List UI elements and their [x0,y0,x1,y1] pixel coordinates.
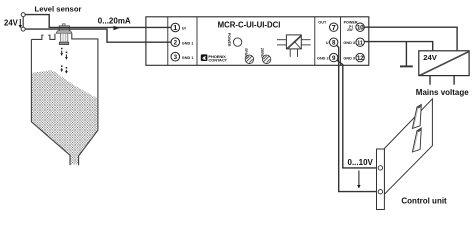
svg-text:SPAN: SPAN [244,48,248,58]
potentiometer SPAN [244,48,254,63]
svg-text:U: U [326,41,329,45]
terminal 9 GND 2 [317,53,338,61]
terminal 3 GND 1 [171,52,193,61]
wire GND 3 from terminal 11 [363,42,433,51]
svg-text:UI: UI [182,26,186,31]
module MCR-C-UI-UI-DCI [146,17,369,66]
tank (storage silo) [31,34,98,165]
svg-text:10: 10 [357,25,364,32]
power supply 24V [419,51,469,85]
24V source terminals [21,13,25,32]
svg-text:GND 3: GND 3 [343,41,355,45]
potentiometer ZERO [260,48,271,64]
svg-text:0...20mA: 0...20mA [98,16,131,25]
label 0...10V with arrow [348,158,374,189]
Phoenix Contact logo [201,54,228,63]
wire 24V+ supply to sensor and 0...20mA to terminal 1 [25,15,171,28]
terminal 2 GND 1 [171,38,193,47]
svg-text:Control unit: Control unit [401,196,447,205]
svg-text:GND 2: GND 2 [317,56,329,60]
ground symbol [400,42,413,67]
svg-text:OUT: OUT [318,20,327,24]
terminal 11 GND 3 [343,38,364,46]
svg-text:2: 2 [174,39,178,46]
arrow 0...20mA direction [114,26,120,30]
control unit card [384,99,432,195]
svg-text:POWER: POWER [227,33,231,47]
isolation amplifier symbol [277,35,311,57]
svg-text:8: 8 [332,39,336,46]
terminal 1 UI [171,23,186,32]
svg-text:24V: 24V [423,53,438,62]
chip 2 on card [412,128,421,152]
svg-text:1: 1 [173,23,177,32]
svg-text:9: 9 [332,55,336,62]
svg-text:Level sensor: Level sensor [35,5,82,14]
wire GND 2 from terminal 9 to control unit [337,60,378,168]
terminal 8 U [326,38,338,46]
control unit front panel [377,149,385,210]
svg-text:Mains voltage: Mains voltage [416,88,469,97]
wire U output from terminal 8 to control unit [337,45,378,191]
terminal 12 GND 3 [343,53,364,62]
label 24V with arrow [4,19,22,29]
chip 1 on card [412,104,421,128]
level sensor [56,24,72,45]
terminal 10 (+)24V [347,23,364,32]
wire 24V power from terminal 10 [363,27,457,50]
svg-text:CONTACT: CONTACT [208,57,227,62]
svg-text:7: 7 [332,23,336,32]
svg-text:3: 3 [174,54,178,61]
svg-text:POWER: POWER [344,20,358,24]
ultrasonic pulse arrows [60,48,68,74]
LED POWER [227,33,242,47]
terminal 7 I [330,23,338,32]
svg-text:24V: 24V [4,19,19,28]
svg-text:GND 1: GND 1 [182,41,194,45]
svg-text:24V: 24V [347,28,354,32]
svg-text:GND 1: GND 1 [182,56,194,60]
svg-text:12: 12 [357,55,364,62]
wire sensor return to terminal 2 [25,29,171,42]
svg-text:11: 11 [357,40,363,46]
svg-text:MCR-C-UI-UI-DCI: MCR-C-UI-UI-DCI [218,20,281,29]
svg-text:0...10V: 0...10V [348,158,374,167]
svg-text:GND 3: GND 3 [343,56,355,60]
svg-text:ZERO: ZERO [260,48,264,58]
